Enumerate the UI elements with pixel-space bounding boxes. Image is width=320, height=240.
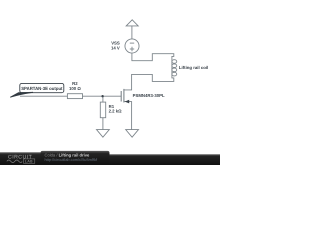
svg-text:2.2 kΩ: 2.2 kΩ xyxy=(109,109,123,114)
svg-text:LAB: LAB xyxy=(25,160,33,164)
svg-text:PSMN4R3-30PL: PSMN4R3-30PL xyxy=(133,93,165,98)
svg-text:14 V: 14 V xyxy=(111,46,120,51)
svg-text:100 Ω: 100 Ω xyxy=(69,86,81,91)
svg-text:Lifting rail coil: Lifting rail coil xyxy=(179,65,208,70)
svg-text:SPARTAN-3E output: SPARTAN-3E output xyxy=(21,86,63,91)
svg-text:http://circuitlab.com/c/5u5m9k: http://circuitlab.com/c/5u5m9kf xyxy=(45,157,98,162)
